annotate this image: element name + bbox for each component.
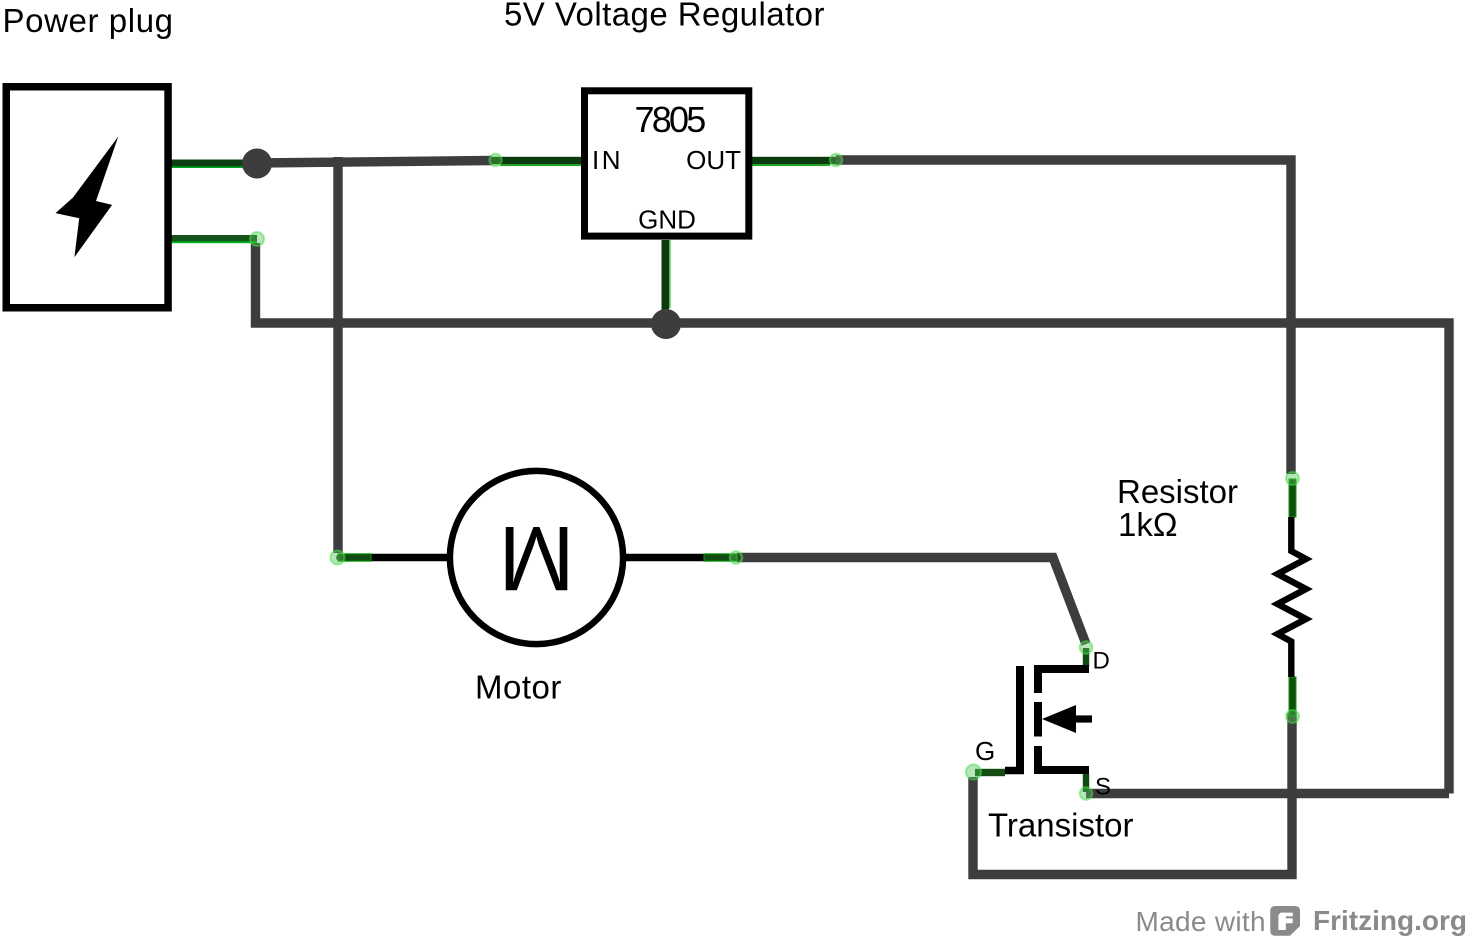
svg-text:S: S [1095, 774, 1111, 801]
svg-text:D: D [1093, 648, 1110, 675]
svg-text:Motor: Motor [475, 669, 562, 706]
svg-text:Transistor: Transistor [988, 807, 1133, 844]
svg-text:Fritzing.org: Fritzing.org [1313, 905, 1467, 936]
svg-text:5V Voltage Regulator: 5V Voltage Regulator [504, 0, 825, 32]
svg-text:Made with: Made with [1136, 906, 1266, 936]
svg-text:OUT: OUT [686, 145, 741, 175]
svg-text:G: G [975, 736, 995, 766]
svg-text:M: M [498, 507, 575, 609]
svg-text:Resistor: Resistor [1117, 473, 1238, 510]
svg-text:Power plug: Power plug [3, 2, 174, 39]
svg-text:1kΩ: 1kΩ [1118, 506, 1178, 543]
svg-text:IN: IN [592, 145, 623, 175]
svg-text:7805: 7805 [635, 99, 706, 140]
svg-text:GND: GND [638, 205, 696, 235]
